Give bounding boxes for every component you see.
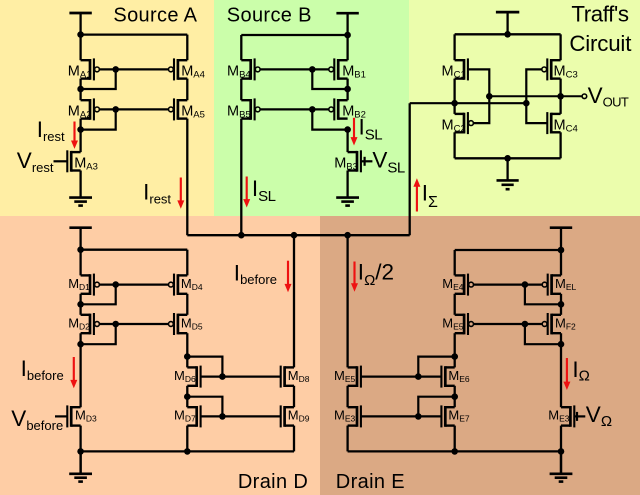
wire I_omega/2 branch xyxy=(346,235,348,367)
wire Source B right column upper xyxy=(346,35,348,60)
ground Drain E xyxy=(550,451,573,481)
node gate row 3 Drain D xyxy=(219,373,226,380)
current arrow I_before right xyxy=(285,261,292,293)
wire gate M_E3 right xyxy=(574,415,585,417)
wire diode link M_B2 xyxy=(312,109,347,129)
transistor M_C2 xyxy=(455,112,474,134)
wire gate row 2 Source A xyxy=(99,108,168,110)
wire VDD rail Drain D xyxy=(81,249,188,251)
transistor M_A2 xyxy=(81,98,100,120)
region Source B background xyxy=(214,0,409,216)
svg-text:Drain D: Drain D xyxy=(238,471,308,493)
transistor M_A3 xyxy=(67,150,80,172)
wire Drain D mid column bottom xyxy=(186,426,188,452)
transistor M_D3 xyxy=(67,405,80,427)
wire diode link M_A1 xyxy=(81,69,116,89)
wire I_SL branch Source B xyxy=(240,119,242,236)
ground Drain D xyxy=(69,451,92,481)
node gate row 1 Drain D xyxy=(112,281,119,288)
node Drain D ground xyxy=(77,448,84,455)
supply VDD Drain E xyxy=(550,228,572,254)
svg-text:Source A: Source A xyxy=(113,5,197,27)
node gate row 1 Source A xyxy=(112,66,119,73)
current arrow I_SL left xyxy=(243,177,250,208)
ground Traff xyxy=(497,158,519,189)
transistor M_B5 xyxy=(241,98,260,120)
wire diode link M_D1 xyxy=(81,285,116,305)
wire gate row 1 Drain D xyxy=(99,284,168,286)
transistor M_E3 right xyxy=(561,405,574,427)
wire Drain D left column upper xyxy=(79,250,81,276)
wire gate M_D3 xyxy=(55,415,67,417)
transistor M_D7 xyxy=(187,405,200,427)
region Traff's Circuit background xyxy=(409,0,640,216)
wire Drain E right column upper xyxy=(560,250,562,275)
terminal V_OUT xyxy=(582,94,587,99)
transistor M_D6 xyxy=(187,366,200,388)
wire Drain E right column 2 xyxy=(560,294,562,315)
wire Drain E mid column bottom xyxy=(454,426,456,452)
transistor M_D1 xyxy=(81,274,100,296)
wire Source A left column to M_A3 xyxy=(79,119,81,153)
node gate row 1 Drain E xyxy=(522,281,529,288)
wire Traff left column mid xyxy=(453,79,455,114)
wire Drain D bottom bus xyxy=(81,450,294,452)
node Drain E bus mid xyxy=(451,448,458,455)
node drain M_D2 xyxy=(77,341,84,348)
wire gate row 2 Source B xyxy=(260,108,329,110)
node gate row 2 Source B xyxy=(309,106,316,113)
svg-text:Source B: Source B xyxy=(227,5,312,27)
transistor M_D5 xyxy=(169,313,188,335)
svg-text:Traff's: Traff's xyxy=(571,1,628,26)
wire gate row 4 Drain D xyxy=(201,415,281,417)
ground Source B xyxy=(336,171,359,206)
node gate row 2 Drain E xyxy=(522,321,529,328)
transistor M_B4 xyxy=(241,58,260,80)
wire upper mid rail to V_OUT xyxy=(489,95,581,97)
wire link M_E6 gate xyxy=(418,357,454,377)
current arrow I_sigma xyxy=(413,178,420,211)
node drain M_EL xyxy=(558,301,565,308)
wire Drain D left column bottom xyxy=(79,426,81,473)
transistor M_B2 xyxy=(329,98,348,120)
wire diode link M_A2 xyxy=(81,109,116,129)
transistor M_D9 xyxy=(281,405,294,427)
wire Traff right column upper xyxy=(559,34,561,60)
wire link M_D7 gate xyxy=(187,397,222,417)
wire gate row 3 Drain E xyxy=(361,376,442,378)
ground Source A xyxy=(69,171,92,206)
node drain M_E7 top xyxy=(451,393,458,400)
node drain M_D1 xyxy=(77,301,84,308)
wire Drain E mid column 3 xyxy=(454,333,456,367)
transistor M_D8 xyxy=(281,366,294,388)
wire Drain D right column upper xyxy=(186,250,188,276)
wire Drain D right column mid xyxy=(186,294,188,315)
transistor M_E7 xyxy=(441,405,454,427)
wire gate row 4 Drain E xyxy=(361,415,442,417)
transistor M_E4 xyxy=(455,274,474,296)
wire gate row 2 Drain E xyxy=(474,323,543,325)
current arrow I_before left xyxy=(70,357,77,388)
wire diode link M_F2 xyxy=(525,324,561,344)
transistor M_E3 lower left xyxy=(348,405,361,427)
region Drain E background xyxy=(320,216,640,495)
wire Drain E right column bottom xyxy=(560,426,562,473)
node gate row 1 Source B xyxy=(309,66,316,73)
transistor M_B3 xyxy=(348,150,361,172)
node drain M_E6 top xyxy=(451,353,458,360)
wire I_rest branch Source A xyxy=(186,119,188,236)
wire lower mid rail xyxy=(410,102,527,104)
svg-text:Drain E: Drain E xyxy=(336,471,405,493)
wire Source B right column mid xyxy=(346,79,348,101)
wire gate row 1 Drain E xyxy=(474,284,543,286)
supply VDD Source A xyxy=(69,13,91,38)
node M_D7 drain link xyxy=(184,393,191,400)
transistor M_A4 xyxy=(169,58,188,80)
node drain M_F2 xyxy=(558,341,565,348)
wire Drain E right column to M_E3 xyxy=(560,333,562,407)
transistor M_A1 xyxy=(81,58,100,80)
wire Drain E left column bottom xyxy=(346,426,348,452)
node Traff ground xyxy=(504,155,511,162)
wire diode link M_EL xyxy=(525,285,561,305)
node bus Source B left xyxy=(238,232,245,239)
node Traff right mid xyxy=(557,93,564,100)
transistor M_E6 xyxy=(441,366,454,388)
node gate row 2 Drain D xyxy=(112,321,119,328)
wire gate M_C3 to node xyxy=(526,69,542,103)
wire link M_E7 gate xyxy=(418,397,454,417)
transistor M_F2 xyxy=(542,313,561,335)
node gate row 3 Drain E xyxy=(415,373,422,380)
wire gate M_A3 xyxy=(54,160,68,162)
svg-text:Circuit: Circuit xyxy=(569,31,632,56)
wire Source A right column upper xyxy=(186,35,188,61)
supply VDD Traff xyxy=(496,12,519,37)
wire Drain D mid column xyxy=(186,333,188,367)
wire Source A left column upper xyxy=(79,35,81,61)
node gate row 4 Drain E xyxy=(415,413,422,420)
wire common bus xyxy=(187,234,409,236)
wire Drain D left column to M_D3 xyxy=(79,333,81,407)
wire gate row 3 Drain D xyxy=(201,376,281,378)
node gate node upper xyxy=(486,93,493,100)
node gate node lower xyxy=(523,100,530,107)
node gate row 2 Source A xyxy=(112,106,119,113)
transistor M_E5 upper xyxy=(455,313,474,335)
node bus Drain D right xyxy=(291,232,298,239)
node Traff left mid xyxy=(451,100,458,107)
transistor M_B1 xyxy=(329,58,348,80)
wire Drain E bottom bus xyxy=(348,450,561,452)
wire gate M_C2 to node xyxy=(473,96,489,123)
wire gate M_B3 xyxy=(361,160,373,162)
transistor M_C4 xyxy=(547,112,560,134)
wire Source B left column upper xyxy=(240,35,242,60)
node drain M_A1 xyxy=(77,86,84,93)
wire Traff right column lower xyxy=(559,132,561,158)
supply VDD Source B xyxy=(336,13,358,38)
wire Traff bottom rail xyxy=(455,157,561,159)
wire Drain D mid column lower xyxy=(186,386,188,407)
node gate row 4 Drain D xyxy=(219,413,226,420)
wire Traff left column upper xyxy=(453,34,455,60)
wire gate M_C4 to node xyxy=(526,103,547,123)
wire gate row 2 Drain D xyxy=(99,323,168,325)
wire Drain E mid column 4 xyxy=(454,386,456,407)
wire Drain E mid column upper xyxy=(454,250,456,275)
wire Source B left column mid xyxy=(240,79,242,101)
region Source A background xyxy=(0,0,214,216)
wire I_sigma vertical xyxy=(409,103,411,235)
wire Drain E mid column 2 xyxy=(454,294,456,315)
current arrow I_rest upper xyxy=(71,122,78,149)
wire link M_D6 gate xyxy=(187,357,222,377)
wire Source A right column mid xyxy=(186,79,188,101)
wire VDD rail Source B xyxy=(241,34,347,36)
supply VDD Drain D xyxy=(69,228,91,253)
wire Drain E left column lower xyxy=(346,386,348,407)
wire Traff left column lower xyxy=(453,132,455,158)
transistor M_C3 xyxy=(542,58,561,80)
transistor M_E5 lower xyxy=(348,366,361,388)
node Drain D bus mid xyxy=(184,448,191,455)
transistor M_D2 xyxy=(81,313,100,335)
terminal tick V_omega xyxy=(576,412,578,421)
node drain M_B2 xyxy=(344,126,351,133)
wire VDD rail Drain E xyxy=(455,249,561,251)
wire Traff right column mid xyxy=(559,79,561,114)
wire I_before branch xyxy=(293,235,295,367)
node bus Drain E left xyxy=(344,232,351,239)
wire VDD rail Traff xyxy=(455,33,561,35)
node drain M_B1 xyxy=(344,86,351,93)
transistor M_D4 xyxy=(169,274,188,296)
node drain M_A2 xyxy=(77,126,84,133)
wire VDD rail Source A xyxy=(81,33,188,35)
wire Source B right column to M_B3 xyxy=(346,130,348,153)
region Drain D background xyxy=(0,216,320,495)
wire diode link M_B1 xyxy=(312,69,347,89)
wire gate M_C1 to node xyxy=(468,69,489,96)
current arrow I_SL right xyxy=(351,118,358,146)
wire gate row 1 Source B xyxy=(260,68,329,70)
wire Drain D left column mid xyxy=(79,294,81,315)
wire Drain D right column bottom xyxy=(293,426,295,452)
terminal tick V_SL xyxy=(364,157,366,166)
node M_D6 drain link xyxy=(184,353,191,360)
current arrow I_omega/2 xyxy=(351,262,358,292)
current arrow I_omega xyxy=(563,358,570,390)
wire Source A left column mid xyxy=(79,79,81,101)
transistor M_A5 xyxy=(169,98,188,120)
current arrow I_rest lower xyxy=(177,178,184,209)
wire gate row 1 Source A xyxy=(99,68,168,70)
wire diode link M_D2 xyxy=(81,324,116,344)
transistor M_EL xyxy=(542,274,561,296)
transistor M_C1 xyxy=(455,58,468,80)
node Drain E ground xyxy=(558,448,565,455)
wire Drain D right column lower xyxy=(293,386,295,407)
